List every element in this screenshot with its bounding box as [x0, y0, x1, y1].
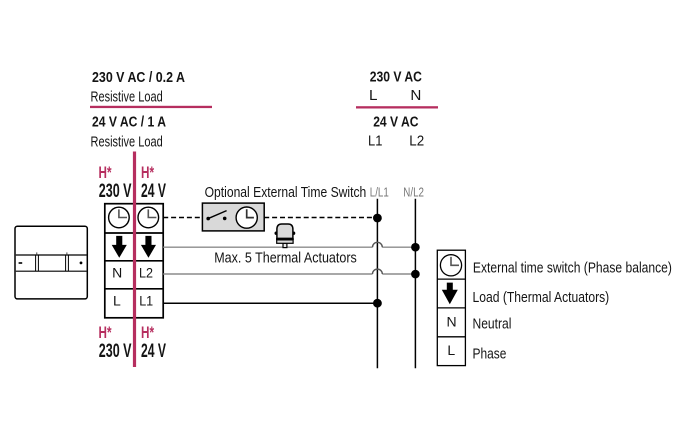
load arrow left [112, 236, 127, 258]
svg-text:24 V AC: 24 V AC [373, 113, 418, 130]
clock icon left (external time switch input, 230 V side) [109, 207, 130, 228]
junction dot on N/L2 (load return) [411, 243, 420, 252]
thermal actuator symbol [275, 224, 296, 248]
load arrow right [141, 236, 156, 258]
junction dot on L/L1 (phase) [373, 299, 382, 308]
terminal block table [105, 204, 163, 318]
junction dot on L/L1 (time switch feed) [373, 214, 382, 223]
svg-text:230 V AC: 230 V AC [370, 68, 422, 85]
svg-text:Resistive Load: Resistive Load [91, 135, 163, 151]
clock icon in time switch [236, 207, 257, 228]
device dot mark [80, 262, 83, 265]
wire: N terminal to N/L2 (gray, hops over L/L1) [163, 273, 415, 275]
device rocker divider left (double line) [35, 255, 37, 271]
separator rule right (crimson) [356, 106, 438, 108]
device rocker band bottom line [16, 270, 87, 272]
dashed wire: time switch to L/L1 [264, 217, 377, 219]
separator rule left (crimson) [90, 106, 212, 108]
svg-text:Phase: Phase [473, 346, 507, 362]
wire: L terminal to L/L1 (phase) [163, 302, 377, 304]
vertical wire L/L1 [376, 199, 378, 368]
svg-text:Neutral: Neutral [473, 317, 512, 333]
device rocker band top line [16, 254, 87, 256]
svg-text:L: L [369, 87, 377, 104]
svg-text:External time switch (Phase ba: External time switch (Phase balance) [473, 261, 672, 277]
crimson divider vertical line [133, 152, 136, 368]
vertical wire N/L2 [414, 199, 416, 368]
device minus mark [19, 262, 23, 264]
junction dot on N/L2 (neutral) [411, 270, 420, 279]
legend table [437, 250, 465, 365]
svg-text:Max. 5 Thermal Actuators: Max. 5 Thermal Actuators [214, 251, 357, 267]
dashed wire: clock row to time switch [163, 217, 202, 219]
legend clock icon [440, 255, 461, 276]
svg-text:Resistive Load: Resistive Load [91, 89, 163, 105]
clock icon right (external time switch input, 24 V side) [138, 207, 159, 228]
svg-text:L: L [113, 293, 121, 309]
room thermostat device outline [15, 226, 87, 299]
svg-text:Load (Thermal Actuators): Load (Thermal Actuators) [473, 290, 610, 306]
svg-text:L1: L1 [139, 293, 153, 309]
svg-text:N: N [112, 264, 122, 280]
switch contact symbol [206, 211, 226, 221]
svg-text:230 V: 230 V [99, 340, 132, 362]
time switch box [202, 203, 264, 231]
svg-text:N: N [447, 314, 457, 330]
svg-text:N/L2: N/L2 [403, 185, 424, 200]
svg-text:L: L [447, 342, 455, 358]
svg-text:L2: L2 [409, 133, 424, 150]
svg-text:L1: L1 [368, 133, 382, 150]
svg-text:230 V AC / 0.2 A: 230 V AC / 0.2 A [92, 70, 185, 86]
svg-text:L2: L2 [139, 264, 153, 280]
device band notch left [36, 252, 38, 255]
svg-text:L/L1: L/L1 [370, 185, 389, 200]
svg-text:N: N [410, 87, 421, 104]
svg-text:230 V: 230 V [99, 180, 132, 202]
device rocker divider right (double line) [65, 255, 67, 271]
svg-text:24 V AC / 1 A: 24 V AC / 1 A [92, 115, 166, 131]
svg-text:24 V: 24 V [141, 340, 166, 362]
svg-text:24 V: 24 V [141, 180, 166, 202]
legend load arrow [442, 283, 458, 305]
svg-text:Optional External Time Switch: Optional External Time Switch [205, 185, 367, 201]
device band notch right [66, 252, 68, 255]
wire: load row to N/L2 (gray, hops over L/L1) [163, 246, 415, 248]
